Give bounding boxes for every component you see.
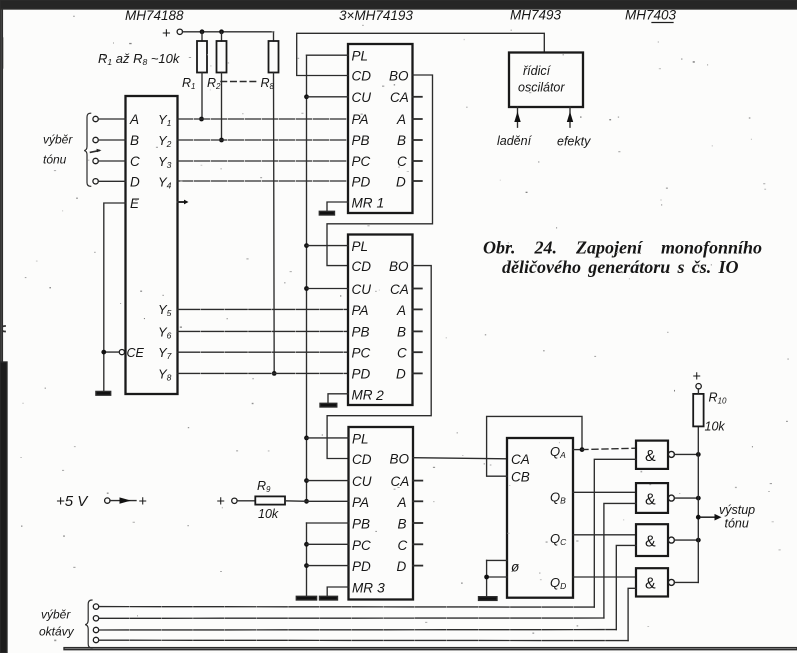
U3 pin labels left: [352, 239, 373, 403]
svg-text:PD: PD: [352, 175, 371, 190]
resistor R9 body: [255, 496, 285, 504]
counter U3 MH74193 no2 body: [348, 235, 413, 406]
svg-text:R9: R9: [257, 479, 271, 494]
svg-text:CA: CA: [390, 90, 409, 105]
stub D2: [413, 372, 422, 374]
wire input D: [98, 180, 125, 182]
wire G2 output: [674, 497, 698, 499]
svg-text:Y8: Y8: [158, 367, 172, 383]
wire Y7 row: [178, 351, 349, 353]
svg-text:CB: CB: [511, 470, 530, 485]
wire G4 output: [674, 581, 698, 583]
svg-text:&: &: [645, 533, 656, 550]
node rail R1: [200, 29, 205, 34]
octave input terminal 4: [93, 637, 98, 642]
svg-text:PD: PD: [352, 559, 371, 574]
stub CA3: [413, 480, 422, 482]
svg-text:A: A: [396, 112, 406, 127]
svg-text:oscilátor: oscilátor: [518, 81, 565, 95]
svg-text:CA: CA: [391, 474, 410, 489]
U3 pin labels right: [389, 259, 409, 382]
node QA: [580, 447, 585, 452]
wire MR3: [327, 587, 348, 596]
input terminal A: [93, 116, 98, 121]
oscillator label: [518, 64, 565, 95]
svg-text:výstup: výstup: [719, 503, 755, 517]
scan bottom rule: [64, 648, 797, 650]
wire input B: [98, 139, 125, 141]
terminal circle R10: [696, 384, 701, 389]
stub A1: [413, 118, 422, 120]
bus high rail vertical: [306, 55, 308, 501]
svg-text:A: A: [129, 112, 139, 127]
svg-text:R1: R1: [182, 76, 195, 91]
wire Y4 row: [178, 180, 349, 182]
wire phi ground vertical: [486, 560, 488, 596]
stub C2: [413, 351, 422, 353]
scan top black bar: [0, 0, 797, 9]
svg-text:Y4: Y4: [158, 175, 172, 191]
svg-text:QC: QC: [550, 531, 567, 547]
U4 pin labels right: [390, 452, 410, 575]
node R1-Y1: [199, 117, 204, 122]
svg-text:CA: CA: [511, 452, 530, 467]
svg-text:D: D: [130, 175, 140, 190]
svg-text:BO: BO: [389, 259, 409, 274]
wire QB to gate2: [573, 491, 636, 493]
svg-text:2: 2: [375, 387, 384, 403]
wire octave3 riser to G3: [616, 545, 636, 629]
svg-text:výběr: výběr: [41, 608, 71, 622]
scan left edge line: [0, 9, 2, 362]
svg-text:CU: CU: [352, 90, 372, 105]
svg-text:+5 V: +5 V: [56, 493, 89, 510]
node rail R2: [219, 29, 224, 34]
terminal circle +5V: [105, 498, 110, 503]
node bus PA3 R9: [304, 499, 309, 504]
stub C3: [413, 543, 422, 545]
wire R8 top: [273, 32, 275, 41]
svg-text:CD: CD: [352, 69, 372, 84]
G4 output bubble: [668, 579, 674, 585]
stub CA2: [413, 288, 422, 290]
svg-text:10k: 10k: [705, 420, 726, 434]
U2 pin labels right: [389, 69, 409, 190]
svg-text:A: A: [396, 303, 406, 318]
svg-text:PC: PC: [352, 538, 371, 553]
wire G3 output: [674, 539, 698, 541]
svg-text:oktávy: oktávy: [39, 625, 75, 639]
svg-text:C: C: [397, 346, 407, 361]
CE inversion bubble: [119, 350, 124, 355]
svg-text:QA: QA: [550, 444, 566, 460]
wire Y1 row: [178, 118, 349, 120]
wire octave line 1: [99, 606, 595, 609]
G2 output bubble: [668, 495, 674, 501]
wire octave1 riser to G1: [594, 459, 636, 607]
resistor R8 body: [269, 41, 279, 73]
svg-text:R8: R8: [261, 76, 275, 91]
svg-text:&: &: [645, 575, 656, 592]
oscillator block body: [509, 53, 583, 108]
svg-text:B: B: [130, 133, 139, 148]
node bus PL2: [304, 243, 309, 248]
wire phi lower to ground rail: [487, 576, 507, 578]
G3 output bubble: [668, 537, 674, 543]
svg-text:BO: BO: [390, 452, 410, 467]
wire CD1 to oscillator: [297, 33, 545, 75]
ground CE: [96, 391, 111, 395]
node R8-Y8: [272, 371, 277, 376]
stub right of ROM at E row: [178, 201, 185, 203]
node bus CU3: [304, 478, 309, 483]
node bus PL3: [304, 436, 309, 441]
wire MR2: [328, 394, 348, 404]
supply terminal circle top: [177, 29, 182, 34]
divider U5 MH7493 body: [507, 438, 573, 598]
svg-text:MR: MR: [352, 196, 373, 211]
node bus CU1: [304, 94, 309, 99]
wire Y8 row: [178, 372, 349, 374]
dashed etc mark: [221, 81, 259, 83]
octave input terminal 2: [93, 616, 98, 621]
svg-text:Y2: Y2: [158, 133, 172, 149]
svg-text:PL: PL: [352, 239, 369, 254]
svg-text:PA: PA: [352, 495, 369, 510]
svg-text:A: A: [397, 495, 407, 510]
svg-text:Y6: Y6: [158, 325, 172, 341]
svg-text:tónu: tónu: [725, 517, 749, 531]
wire PL2 to bus: [307, 245, 349, 247]
scan left black bar: [0, 362, 7, 653]
svg-text:CU: CU: [352, 474, 372, 489]
node G3 out: [696, 538, 701, 543]
svg-text:Y7: Y7: [158, 345, 172, 361]
svg-text:výběr: výběr: [43, 133, 73, 147]
wire to R9: [237, 500, 255, 502]
svg-text:D: D: [396, 367, 406, 382]
svg-text:tónu: tónu: [43, 153, 67, 167]
small arrow artifact: [91, 151, 100, 153]
input terminal B: [93, 137, 98, 142]
bus low rail vertical: [306, 523, 308, 596]
svg-text:C: C: [130, 154, 140, 169]
wire CU2 to bus: [307, 288, 349, 290]
wire supply rail top: [183, 31, 274, 33]
svg-text:MR: MR: [352, 581, 373, 596]
svg-text:MR: MR: [352, 388, 373, 403]
wire octave line 2: [99, 617, 604, 619]
node G2 out: [696, 496, 701, 501]
wire CU1 to bus: [307, 96, 349, 98]
wire Y6 row: [178, 330, 349, 332]
ground MR1: [319, 211, 334, 215]
wire R8 to Y8: [273, 73, 276, 374]
svg-text:PL: PL: [352, 49, 369, 64]
ground MR2: [320, 403, 337, 407]
label vyber oktavy: [39, 608, 75, 639]
wire R1 to Y1: [201, 73, 203, 120]
svg-text:+: +: [162, 25, 171, 42]
label vystup tonu: [719, 503, 755, 531]
svg-text:CE: CE: [127, 346, 145, 360]
wire BO3 to CA 7493: [413, 458, 507, 459]
counter U2 MH74193 no1 body: [348, 44, 413, 213]
wire Y3 row: [178, 160, 349, 162]
U2 pin labels left: [352, 49, 373, 211]
wire phi upper to ground rail: [487, 559, 507, 561]
wire octave line 4: [99, 639, 628, 641]
stub D3: [413, 565, 422, 567]
ground low bus: [296, 596, 316, 600]
svg-text:ø: ø: [511, 560, 519, 575]
svg-text:řídicí: řídicí: [523, 64, 552, 78]
resistor R2 body: [217, 41, 227, 73]
input terminal C: [93, 158, 98, 163]
ROM U1 MH74188 body: [126, 96, 178, 394]
wire QC to gate3: [573, 534, 636, 536]
svg-text:QD: QD: [550, 575, 566, 591]
svg-text:BO: BO: [389, 69, 409, 84]
node phi: [484, 575, 489, 580]
svg-text:PD: PD: [352, 367, 371, 382]
svg-text:efekty: efekty: [557, 135, 591, 149]
octave input terminal 3: [93, 627, 98, 632]
ground MR3: [320, 596, 338, 600]
counter U4 MH74193 no3 body: [349, 427, 414, 600]
wire PA3 to bus: [307, 500, 349, 502]
input terminal D: [93, 179, 98, 184]
nand gate G3 body: [636, 524, 668, 556]
wire octave line 3: [99, 629, 617, 631]
node G1 out: [696, 452, 701, 457]
wire BO2 to CD3 cascade: [327, 266, 431, 459]
octave input terminal 1: [93, 604, 98, 609]
svg-text:PB: PB: [352, 133, 370, 148]
wire PD3 to low bus: [307, 565, 349, 567]
wire QD to gate4: [573, 576, 636, 578]
node E-CE junction: [101, 350, 106, 355]
wire input A: [98, 118, 125, 120]
stub A3: [413, 500, 422, 502]
svg-text:Y3: Y3: [158, 154, 172, 170]
svg-text:PC: PC: [352, 346, 371, 361]
wire BO1 to CD2 cascade: [327, 75, 433, 266]
nand gate G4 body: [636, 568, 668, 596]
arrow vystup tonu: [701, 514, 722, 521]
svg-text:1: 1: [377, 195, 385, 211]
wire CE: [104, 351, 120, 353]
svg-text:E: E: [130, 196, 140, 211]
label MH7403: [625, 8, 677, 23]
svg-text:10k: 10k: [258, 507, 279, 521]
resistor R10 body: [693, 394, 703, 427]
svg-text:CD: CD: [352, 259, 372, 274]
wire Y5 row: [178, 308, 349, 310]
svg-text:R2: R2: [207, 76, 221, 91]
wire R10 top: [697, 389, 699, 394]
wire input C: [98, 160, 125, 162]
wire PL3 to bus: [307, 437, 349, 439]
oscillator input efekty arrow: [567, 107, 573, 127]
wire +5V arrow: [110, 497, 136, 503]
oscillator input ladeni arrow: [514, 107, 520, 127]
node R2-Y2: [219, 138, 224, 143]
svg-text:PA: PA: [352, 303, 369, 318]
svg-text:+: +: [693, 369, 701, 385]
stub CA1: [413, 96, 422, 98]
wire octave2 riser to G2: [604, 503, 636, 618]
output rail vertical: [697, 426, 699, 582]
svg-text:PA: PA: [352, 112, 369, 127]
stub D1: [413, 180, 422, 182]
resistor R1 body: [197, 41, 207, 73]
svg-text:&: &: [645, 448, 656, 465]
svg-text:&: &: [645, 492, 656, 509]
svg-text:B: B: [397, 325, 406, 340]
svg-text:CU: CU: [352, 282, 372, 297]
wire octave4 riser to G4: [628, 588, 636, 640]
svg-text:+: +: [139, 494, 147, 510]
stub A2: [413, 308, 422, 310]
wire MR1: [327, 202, 348, 211]
wire R2 top: [221, 32, 223, 41]
ground 7493: [479, 597, 498, 601]
svg-text:Obr. 24. Zapojení monofonního: Obr. 24. Zapojení monofonního: [483, 238, 762, 258]
wire R2 to Y2: [221, 73, 223, 141]
svg-text:děličového generátoru s čs. IO: děličového generátoru s čs. IO: [502, 257, 738, 277]
wire PB3 to low bus: [307, 522, 349, 524]
nand gate G1 body: [636, 441, 668, 469]
svg-text:B: B: [398, 517, 407, 532]
svg-text:PB: PB: [352, 325, 370, 340]
svg-text:Y5: Y5: [158, 302, 172, 318]
node bus CU2: [304, 286, 309, 291]
svg-text:PC: PC: [352, 154, 371, 169]
svg-text:D: D: [396, 175, 406, 190]
svg-text:MH7493: MH7493: [510, 8, 562, 23]
svg-text:3×MH74193: 3×MH74193: [339, 8, 413, 23]
wire R9 to bus PA3: [285, 500, 307, 503]
wire PL1 to bus: [307, 54, 349, 56]
svg-text:3: 3: [377, 580, 385, 596]
brace octave select: [85, 600, 92, 648]
wire E to CE: [104, 203, 126, 392]
node bus PC3: [304, 542, 309, 547]
stub C1: [413, 160, 422, 162]
svg-text:R10: R10: [709, 391, 727, 406]
svg-text:PB: PB: [352, 517, 370, 532]
terminal circle R9: [232, 498, 237, 503]
wire QA out: [573, 449, 582, 451]
wire R1 top: [201, 32, 203, 41]
U4 pin labels left: [352, 432, 373, 596]
wire CU3 to bus: [307, 480, 349, 482]
wire QA to CB feedback loop: [487, 416, 582, 476]
svg-text:+: +: [217, 494, 225, 510]
svg-text:CD: CD: [352, 452, 372, 467]
svg-text:MH74188: MH74188: [125, 8, 184, 23]
svg-text:PL: PL: [352, 432, 369, 447]
stub B2: [413, 330, 422, 332]
svg-text:ladění: ladění: [497, 134, 533, 148]
wire G1 output: [674, 453, 698, 455]
svg-text:C: C: [398, 538, 408, 553]
svg-text:B: B: [397, 133, 406, 148]
scan left edge artifact c: [2, 326, 6, 332]
svg-text:R1 až R8 ~10k: R1 až R8 ~10k: [98, 51, 181, 67]
label vyber tonu: [43, 133, 73, 167]
stub B1: [413, 139, 422, 141]
nand gate G2 body: [636, 483, 668, 513]
wire QA to gate1 dashed: [582, 448, 636, 449]
svg-text:MH7403: MH7403: [625, 8, 677, 23]
G1 output bubble: [668, 451, 674, 457]
svg-text:QB: QB: [550, 490, 566, 506]
svg-text:Y1: Y1: [158, 112, 172, 128]
wire Y2 row: [178, 139, 349, 141]
node bus PD3: [304, 563, 309, 568]
stub B3: [413, 522, 422, 524]
node rail arrow: [696, 515, 701, 520]
brace tone select: [84, 113, 91, 186]
svg-text:CA: CA: [390, 282, 409, 297]
svg-text:D: D: [397, 559, 407, 574]
wire PC3 to low bus: [307, 543, 349, 545]
